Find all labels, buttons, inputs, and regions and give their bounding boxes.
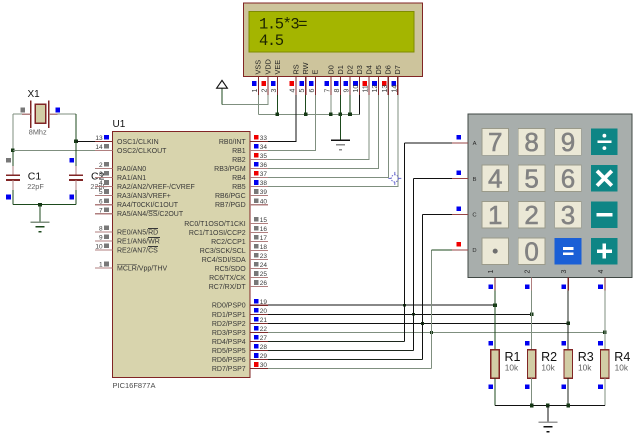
mouse crosshair cursor xyxy=(388,172,401,185)
U1 pin 20 state square xyxy=(254,308,259,313)
junction rail R3 xyxy=(566,404,570,408)
svg-text:A: A xyxy=(473,141,477,147)
wire keypad column 1 down to R1 xyxy=(494,291,496,350)
LCD pin 4 stub xyxy=(295,77,297,95)
U1 pin 29 state square xyxy=(254,353,259,358)
U1 pin 14 state square xyxy=(104,144,109,149)
svg-text:RC1/T1OSI/CCP2: RC1/T1OSI/CCP2 xyxy=(189,230,246,237)
capacitor C2 bottom wire xyxy=(75,190,77,205)
svg-text:RD3/PSP3: RD3/PSP3 xyxy=(212,330,246,337)
wire D7 pin14 to RB5 xyxy=(268,95,398,187)
keypad row B stub xyxy=(452,178,468,180)
U1 pin 18 state square xyxy=(254,244,259,249)
svg-text:9: 9 xyxy=(99,235,103,242)
keypad button divide xyxy=(591,129,618,156)
U1 pin 34 state square xyxy=(254,144,259,149)
svg-text:8: 8 xyxy=(99,226,103,233)
svg-text:RD2/PSP2: RD2/PSP2 xyxy=(212,321,246,328)
junction D2 rail xyxy=(348,113,352,117)
svg-text:RC7/RX/DT: RC7/RX/DT xyxy=(209,284,247,291)
svg-text:RC2/CCP1: RC2/CCP1 xyxy=(211,239,246,246)
U1 pin 5 stub xyxy=(95,195,113,197)
U1 pin 2 state square xyxy=(104,162,109,167)
svg-text:27: 27 xyxy=(260,335,268,342)
U1 pin 16 state square xyxy=(254,226,259,231)
overline RD pin 8 xyxy=(148,228,158,230)
U1 pin 1 stub xyxy=(95,267,113,269)
svg-text:15: 15 xyxy=(260,217,268,224)
svg-text:RS: RS xyxy=(291,64,300,74)
svg-text:35: 35 xyxy=(260,153,268,160)
junction rail R2 xyxy=(530,404,534,408)
wire keypad row D vertical xyxy=(430,250,432,369)
U1 pin 26 state square xyxy=(254,280,259,285)
svg-text:RB2: RB2 xyxy=(232,157,246,164)
wire RB3 to LCD D5 xyxy=(268,168,379,170)
LCD pin 14 stub xyxy=(397,77,399,95)
U1 pin 38 stub xyxy=(250,186,268,188)
resistor R2 bottom state square xyxy=(525,384,530,389)
svg-text:D2: D2 xyxy=(345,65,354,74)
U1 pin 14 stub xyxy=(95,149,113,151)
resistor R3 top state square xyxy=(562,341,567,346)
svg-text:3: 3 xyxy=(561,200,575,230)
U1 pin 27 state square xyxy=(254,335,259,340)
U1 pin 36 state square xyxy=(254,162,259,167)
svg-text:23: 23 xyxy=(260,253,268,260)
svg-text:E: E xyxy=(311,70,320,75)
wire RD1 row to keypad column net 2 xyxy=(268,313,532,315)
U1 pin 8 state square xyxy=(104,226,109,231)
keypad button 5 xyxy=(518,165,545,192)
svg-text:26: 26 xyxy=(260,280,268,287)
svg-text:37: 37 xyxy=(260,171,268,178)
U1 pin 4 stub xyxy=(95,186,113,188)
U1 pin 38 state square xyxy=(254,180,259,185)
overline WR pin 9 xyxy=(148,237,160,239)
wire OSC1 node to pin 13 xyxy=(76,140,95,142)
resistor R2 body xyxy=(527,350,535,378)
wire R4 to bottom rail xyxy=(604,378,606,405)
svg-text:13: 13 xyxy=(382,85,389,93)
U1 pin 29 stub xyxy=(250,359,268,361)
keypad button 9 xyxy=(555,129,582,156)
svg-text:RE0/AN5/RD: RE0/AN5/RD xyxy=(117,229,158,236)
svg-text:13: 13 xyxy=(95,135,103,142)
junction RD0 R1 xyxy=(493,303,497,307)
svg-text:5: 5 xyxy=(99,189,103,196)
resistor R4 top state square xyxy=(598,341,603,346)
U1 pin 35 stub xyxy=(250,158,268,160)
capacitor C2 top stub xyxy=(75,166,77,175)
keypad row A state square xyxy=(457,135,462,140)
wire RD6 to keypad row C corner xyxy=(268,359,422,361)
junction RW rail xyxy=(304,113,308,117)
svg-text:2: 2 xyxy=(525,270,532,274)
capacitor C1 bottom wire xyxy=(12,190,14,205)
wire D6 pin13 to RB4 xyxy=(268,95,389,178)
wire rail to ground symbol xyxy=(547,406,549,423)
LCD pin 13 stub xyxy=(387,77,389,95)
keypad button 0 xyxy=(518,238,545,265)
U1 pin 25 state square xyxy=(254,271,259,276)
LCD pin 9 stub xyxy=(349,77,351,95)
LCD pin 4 state square xyxy=(290,81,295,86)
crystal right state square xyxy=(56,108,61,113)
wire RD3 row to keypad column net 4 xyxy=(268,331,605,333)
svg-text:3: 3 xyxy=(99,171,103,178)
resistor R1 top state square xyxy=(488,341,493,346)
capacitor C1 bottom state square xyxy=(6,195,11,200)
svg-text:RA4/T0CKI/C1OUT: RA4/T0CKI/C1OUT xyxy=(117,202,179,209)
svg-text:4: 4 xyxy=(598,270,605,274)
LCD pin 6 stub xyxy=(314,77,316,95)
capacitor C2 bottom stub xyxy=(75,180,77,190)
svg-text:VDD: VDD xyxy=(263,59,272,74)
wire RB2 to LCD D4 xyxy=(268,158,369,160)
svg-text:2: 2 xyxy=(99,162,103,169)
svg-text:RB7/PGD: RB7/PGD xyxy=(215,202,246,209)
LCD pin 8 state square xyxy=(334,81,339,86)
microcontroller U1 body xyxy=(113,132,251,378)
wire D0 pin7 to rail xyxy=(330,95,332,115)
wire keypad row A horizontal xyxy=(405,142,453,144)
LCD pin 7 stub xyxy=(330,77,332,95)
svg-text:2: 2 xyxy=(524,200,538,230)
U1 pin 26 stub xyxy=(250,286,268,288)
U1 pin 33 state square xyxy=(254,135,259,140)
svg-text:C: C xyxy=(472,213,476,219)
svg-text:39: 39 xyxy=(260,189,268,196)
U1 pin 33 stub xyxy=(250,140,268,142)
wire keypad column 2 down to R2 xyxy=(531,291,533,350)
svg-text:1: 1 xyxy=(488,270,495,274)
junction D1 rail and ground drop xyxy=(339,113,343,117)
U1 pin 30 state square xyxy=(254,362,259,367)
wire keypad row B horizontal xyxy=(413,178,452,180)
svg-text:11: 11 xyxy=(363,85,370,92)
ground under crystal caps xyxy=(31,221,50,223)
wire RD4 to keypad row A corner xyxy=(268,341,405,343)
svg-text:VEE: VEE xyxy=(273,60,282,75)
U1 pin 27 stub xyxy=(250,341,268,343)
svg-text:25: 25 xyxy=(260,271,268,278)
resistor R3 body xyxy=(564,350,572,378)
ground under LCD rail xyxy=(331,139,350,141)
junction RD2 R3 xyxy=(566,322,570,326)
U1 pin 37 state square xyxy=(254,171,259,176)
svg-text:RA2/AN2/VREF-/CVREF: RA2/AN2/VREF-/CVREF xyxy=(117,184,195,191)
junction OSC1 node xyxy=(74,140,78,144)
LCD pin 3 state square xyxy=(271,81,276,86)
svg-text:22: 22 xyxy=(260,326,268,333)
U1 pin 17 state square xyxy=(254,235,259,240)
svg-text:RD1/PSP1: RD1/PSP1 xyxy=(212,312,246,319)
svg-text:2: 2 xyxy=(261,89,268,93)
U1 pin 37 stub xyxy=(250,177,268,179)
svg-text:4.5: 4.5 xyxy=(259,32,284,50)
junction D0 rail xyxy=(329,113,333,117)
svg-text:29: 29 xyxy=(260,353,268,360)
LCD pin 1 state square xyxy=(252,81,257,86)
overline MCLR pin 1 xyxy=(117,264,137,266)
LCD pin 12 stub xyxy=(378,77,380,95)
svg-text:RA0/AN0: RA0/AN0 xyxy=(117,166,146,173)
junction RD1 row B xyxy=(412,313,415,316)
svg-text:6: 6 xyxy=(309,89,316,93)
crystal left state square xyxy=(20,108,25,113)
junction rail ground xyxy=(546,404,550,408)
svg-text:RB4: RB4 xyxy=(232,175,246,182)
svg-text:28: 28 xyxy=(260,344,268,351)
crystal right stub xyxy=(49,113,58,115)
svg-text:40: 40 xyxy=(260,198,268,205)
resistor R4 body xyxy=(601,350,609,378)
U1 pin 3 state square xyxy=(104,171,109,176)
U1 pin 7 state square xyxy=(104,207,109,212)
wire right node to C2 xyxy=(75,141,77,166)
keypad row C stub xyxy=(452,213,468,215)
LCD pin 2 stub xyxy=(267,77,269,95)
U1 pin 18 stub xyxy=(250,249,268,251)
svg-text:4: 4 xyxy=(488,164,502,194)
wire D1 pin8 to rail xyxy=(339,95,341,115)
keypad button 1 xyxy=(482,201,509,228)
U1 pin 3 stub xyxy=(95,177,113,179)
svg-text:MCLR/Vpp/THV: MCLR/Vpp/THV xyxy=(117,266,168,273)
U1 pin 15 state square xyxy=(254,217,259,222)
U1 pin 22 state square xyxy=(254,326,259,331)
U1 pin 24 stub xyxy=(250,268,268,270)
U1 pin 15 stub xyxy=(250,222,268,224)
svg-text:RA5/AN4/SS/C2OUT: RA5/AN4/SS/C2OUT xyxy=(117,211,184,218)
svg-text:RD6/PSP6: RD6/PSP6 xyxy=(212,357,246,364)
wire D3 pin10 to rail end xyxy=(359,95,361,115)
svg-text:8: 8 xyxy=(524,127,538,157)
keypad column 1 stub xyxy=(494,278,496,291)
keypad button plus xyxy=(591,238,618,265)
svg-text:OSC2/CLKOUT: OSC2/CLKOUT xyxy=(117,148,167,155)
svg-text:3: 3 xyxy=(271,89,278,93)
svg-text:RC5/SDO: RC5/SDO xyxy=(215,266,247,273)
U1 pin 39 stub xyxy=(250,195,268,197)
svg-text:21: 21 xyxy=(260,317,268,324)
LCD pin 9 state square xyxy=(344,81,349,86)
svg-text:RD7/PSP7: RD7/PSP7 xyxy=(212,366,246,373)
keypad column 3 state square xyxy=(562,285,567,290)
svg-text:20: 20 xyxy=(260,308,268,315)
wire D4 pin11 to RB2 xyxy=(268,95,370,160)
U1 pin 17 stub xyxy=(250,240,268,242)
crystal X1 plates xyxy=(30,100,32,128)
svg-text:RW: RW xyxy=(301,62,310,74)
U1 pin 28 state square xyxy=(254,344,259,349)
resistor R1 body xyxy=(491,350,499,378)
svg-text:17: 17 xyxy=(260,235,268,242)
svg-text:RA1/AN1: RA1/AN1 xyxy=(117,175,146,182)
U1 pin 20 stub xyxy=(250,313,268,315)
capacitor C2 bottom state square xyxy=(69,195,74,200)
keypad button dot xyxy=(482,238,509,265)
wire rail to ground xyxy=(339,114,341,140)
svg-text:33: 33 xyxy=(260,135,268,142)
LCD pin 2 state square xyxy=(262,81,267,86)
capacitor C2 top state square xyxy=(69,158,74,163)
overline SS pin 7 xyxy=(148,209,157,211)
wire RD5 to keypad row B corner xyxy=(268,350,413,352)
svg-text:5: 5 xyxy=(524,164,538,194)
svg-text:38: 38 xyxy=(260,180,268,187)
LCD pin 11 stub xyxy=(368,77,370,95)
U1 pin 9 state square xyxy=(104,235,109,240)
U1 pin 28 stub xyxy=(250,350,268,352)
wire RB5 to LCD D7 xyxy=(268,186,398,188)
resistor R4 bottom state square xyxy=(598,384,603,389)
svg-text:4: 4 xyxy=(290,89,297,93)
LCD pin 6 state square xyxy=(309,81,314,86)
U1 pin 25 stub xyxy=(250,277,268,279)
LCD pin 10 state square xyxy=(353,81,358,86)
wire VDD pin2 to +5V xyxy=(222,95,268,105)
keypad button 8 xyxy=(518,129,545,156)
wire RS pin4 to RB0 xyxy=(268,95,297,142)
junction RD1 R2 xyxy=(530,313,534,317)
svg-text:VSS: VSS xyxy=(254,60,263,75)
U1 pin 4 state square xyxy=(104,180,109,185)
capacitor C1 plates xyxy=(6,174,20,176)
keypad column 2 state square xyxy=(525,285,530,290)
wire rail to ground symbol xyxy=(39,205,41,223)
svg-text:RB0/INT: RB0/INT xyxy=(219,139,247,146)
U1 pin 30 stub xyxy=(250,368,268,370)
keypad button 7 xyxy=(482,129,509,156)
U1 pin 19 state square xyxy=(254,299,259,304)
U1 pin 22 stub xyxy=(250,331,268,333)
U1 pin 34 stub xyxy=(250,149,268,151)
svg-text:D5: D5 xyxy=(374,65,383,74)
U1 pin 40 state square xyxy=(254,198,259,203)
svg-text:D4: D4 xyxy=(364,65,373,74)
svg-text:12: 12 xyxy=(372,85,379,93)
svg-text:PIC16F877A: PIC16F877A xyxy=(113,381,156,390)
keypad button multiply xyxy=(591,165,618,192)
U1 pin 2 stub xyxy=(95,168,113,170)
svg-text:7: 7 xyxy=(99,207,103,214)
LCD pin 14 state square xyxy=(391,81,396,86)
keypad button 3 xyxy=(555,201,582,228)
svg-text:3: 3 xyxy=(561,270,568,274)
U1 pin 24 state square xyxy=(254,262,259,267)
svg-text:10k: 10k xyxy=(541,363,555,373)
resistor bottom ground rail xyxy=(495,405,605,407)
wire R1 to bottom rail xyxy=(494,378,496,405)
svg-text:1: 1 xyxy=(488,200,502,230)
wire crystal right to corner xyxy=(58,113,76,115)
U1 pin 19 stub xyxy=(250,304,268,306)
svg-text:10k: 10k xyxy=(578,363,592,373)
wire keypad column 3 down to R3 xyxy=(567,291,569,350)
wire RD2 row to keypad column net 3 xyxy=(268,322,568,324)
svg-text:RE1/AN6/WR: RE1/AN6/WR xyxy=(117,239,160,246)
resistor R2 top state square xyxy=(525,341,530,346)
resistor R1 bottom state square xyxy=(488,384,493,389)
U1 pin 5 state square xyxy=(104,189,109,194)
LCD pin 8 stub xyxy=(339,77,341,95)
wire OSC2 node to pin 14 xyxy=(13,149,95,151)
U1 pin 13 stub xyxy=(95,140,113,142)
svg-text:RC6/TX/CK: RC6/TX/CK xyxy=(209,275,246,282)
wire keypad row A vertical xyxy=(404,143,406,342)
svg-text:9: 9 xyxy=(561,127,575,157)
svg-text:RC0/T1OSO/T1CKI: RC0/T1OSO/T1CKI xyxy=(184,221,246,228)
U1 pin 7 stub xyxy=(95,213,113,215)
svg-text:22pF: 22pF xyxy=(27,182,44,191)
svg-text:30: 30 xyxy=(260,362,268,369)
U1 pin 23 stub xyxy=(250,259,268,261)
LCD pin 10 stub xyxy=(359,77,361,95)
svg-text:14: 14 xyxy=(391,85,398,93)
svg-text:U1: U1 xyxy=(113,119,126,130)
wire keypad column 4 down to R4 xyxy=(604,291,606,350)
wire VEE pin3 to rail xyxy=(276,95,278,115)
U1 pin 6 state square xyxy=(104,198,109,203)
LCD ground rail xyxy=(258,113,359,115)
svg-text:6: 6 xyxy=(99,198,103,205)
svg-text:10: 10 xyxy=(95,244,103,251)
wire R2 to bottom rail xyxy=(531,378,533,405)
junction ground rail xyxy=(38,203,42,207)
svg-text:1: 1 xyxy=(99,262,103,269)
wire RW pin5 to rail xyxy=(305,95,307,115)
svg-text:RC4/SDI/SDA: RC4/SDI/SDA xyxy=(202,257,246,264)
svg-text:0: 0 xyxy=(524,236,538,266)
svg-text:RB3/PGM: RB3/PGM xyxy=(214,166,246,173)
svg-text:RB5: RB5 xyxy=(232,184,246,191)
svg-text:RD0/PSP0: RD0/PSP0 xyxy=(212,303,246,310)
junction RD3 row D xyxy=(430,331,433,334)
keypad row D state square xyxy=(457,242,462,247)
keypad panel xyxy=(468,114,632,278)
svg-text:D0: D0 xyxy=(326,65,335,74)
wire keypad row C horizontal xyxy=(422,213,452,215)
wire R3 to bottom rail xyxy=(567,378,569,405)
svg-text:16: 16 xyxy=(260,226,268,233)
power +5V arrow lead xyxy=(221,88,223,104)
junction OSC2 node xyxy=(11,149,15,153)
keypad button 4 xyxy=(482,165,509,192)
svg-text:6: 6 xyxy=(561,164,575,194)
keypad column 4 state square xyxy=(598,285,603,290)
wire D2 pin9 to rail xyxy=(349,95,351,115)
LCD pin 13 state square xyxy=(382,81,387,86)
U1 pin 39 state square xyxy=(254,189,259,194)
svg-text:10k: 10k xyxy=(505,363,519,373)
LCD screen xyxy=(249,12,414,53)
keypad button 6 xyxy=(555,165,582,192)
wire VSS pin1 to ground rail xyxy=(257,95,259,115)
crystal left stub xyxy=(22,113,31,115)
wire E pin6 to RB1 xyxy=(268,95,316,151)
LCD pin 5 state square xyxy=(299,81,304,86)
LCD pin 1 stub xyxy=(257,77,259,95)
capacitor C1 top state square xyxy=(6,158,11,163)
LCD pin 3 stub xyxy=(276,77,278,95)
overline CS pin 10 xyxy=(148,246,158,248)
keypad row A stub xyxy=(452,142,468,144)
U1 pin 23 state square xyxy=(254,253,259,258)
svg-text:8Mhz: 8Mhz xyxy=(29,128,47,137)
svg-text:RB1: RB1 xyxy=(232,148,246,155)
